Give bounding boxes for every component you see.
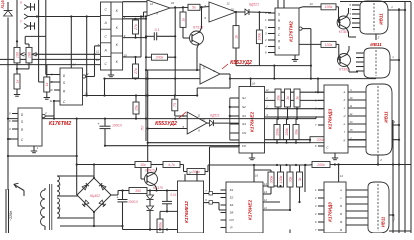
- transistor Q1 KT315: [190, 31, 204, 45]
- svg-text:К176ИД3: К176ИД3: [328, 202, 333, 222]
- wire secondary top to bridge: [62, 176, 94, 179]
- svg-text:200к: 200к: [316, 138, 325, 142]
- wire R11 to Q2: [336, 7, 341, 23]
- svg-text:КТ361: КТ361: [339, 67, 349, 71]
- wire DD4a C pin: [53, 100, 55, 120]
- ground DD1: [108, 70, 114, 77]
- DD3 output wires to DD5: [265, 88, 325, 93]
- svg-text:1к: 1к: [15, 79, 19, 83]
- wire DD6 to DD7: [213, 194, 227, 211]
- wire VD2 out: [249, 11, 271, 13]
- U3 output wire: [197, 74, 230, 96]
- svg-text:10: 10: [49, 88, 53, 92]
- svg-text:f2: f2: [340, 212, 343, 216]
- Q1 emitter wire: [196, 43, 199, 71]
- resistor R4: [44, 65, 50, 92]
- wire y54 bus to DD1: [37, 53, 102, 55]
- DD3 pin16 top: [251, 79, 256, 87]
- wire vertical x46: [17, 0, 54, 75]
- DD5 output wires to V3: [348, 89, 366, 147]
- svg-text:КД521: КД521: [210, 114, 220, 118]
- svg-text:27к: 27к: [134, 68, 138, 75]
- svg-text:10: 10: [230, 8, 234, 12]
- wire to R24: [180, 165, 187, 172]
- wire bus y164.5 left: [77, 164, 135, 166]
- DD8 left pins: [314, 188, 324, 232]
- svg-text:2: 2: [264, 38, 267, 42]
- transformer T1 primary: [41, 188, 46, 230]
- wire bus y164.5 right: [330, 163, 411, 165]
- diode bridge VD4 KTs402: [77, 178, 111, 212]
- svg-text:1к: 1к: [181, 18, 185, 22]
- svg-text:15к: 15к: [134, 105, 138, 111]
- wire bus y78.6 right: [229, 78, 376, 94]
- svg-text:2к: 2к: [234, 35, 238, 40]
- wire y64 to DD1: [0, 64, 101, 66]
- IC DD8 K176ID3: [324, 182, 346, 233]
- svg-text:ИВ11: ИВ11: [370, 42, 382, 47]
- svg-text:100к: 100к: [258, 33, 262, 41]
- DD6 right pins: [204, 189, 213, 204]
- svg-text:30к: 30к: [288, 176, 292, 182]
- svg-text:КЦ402: КЦ402: [90, 194, 100, 198]
- wire secondary center tap: [62, 195, 78, 196]
- svg-text:1000,0: 1000,0: [112, 124, 122, 128]
- svg-text:КД521: КД521: [249, 3, 259, 7]
- resistor R11 100k: [321, 4, 336, 10]
- tube V1 bottom pin 2: [376, 34, 380, 40]
- DD3 left pins: [229, 98, 239, 140]
- label K553UD2 upper: [222, 60, 252, 69]
- svg-text:~4в: ~4в: [58, 207, 62, 212]
- capacitor C3 0.01: [162, 191, 177, 212]
- svg-text:100: 100: [27, 52, 31, 58]
- svg-text:100к: 100к: [279, 175, 283, 183]
- label KT361 Q2: [339, 30, 349, 34]
- VFD tube V2: [356, 48, 390, 78]
- svg-text:CP: CP: [242, 144, 246, 148]
- wire bottom right rail: [389, 230, 411, 232]
- svg-text:100к: 100к: [285, 128, 289, 136]
- svg-text:100к: 100к: [325, 5, 333, 9]
- wire bottom bus: [60, 212, 179, 231]
- wire VD3 to DD3: [214, 122, 240, 124]
- wire left vertical bus: [7, 2, 9, 190]
- label KT315: [193, 26, 203, 30]
- svg-text:1к: 1к: [45, 82, 49, 86]
- resistor row3 R28: [287, 165, 293, 211]
- ground DD3: [249, 153, 255, 160]
- IC DD5 K176ID3: [324, 85, 348, 153]
- wire DD2 top pin 13: [299, 2, 321, 8]
- DD4b input pins: [9, 112, 18, 142]
- IC DD4a K176TM2: [60, 68, 83, 105]
- wire bus right x405: [404, 2, 406, 233]
- svg-text:0,01: 0,01: [170, 193, 176, 197]
- IC DD3 K176IE2: [239, 87, 265, 154]
- transistor Q4 KT815: [145, 169, 158, 186]
- resistor R20 200k: [265, 137, 400, 143]
- tube V3 bottom pin 2: [377, 155, 382, 166]
- wire y190.5 to DD6: [167, 190, 178, 192]
- svg-text:КС170: КС170: [153, 186, 163, 190]
- DD4a input pins: [49, 73, 60, 104]
- DD8 top pin: [338, 163, 344, 182]
- IC DD1 right column K: [111, 2, 123, 70]
- svg-text:К553УД2: К553УД2: [230, 60, 252, 66]
- resistor R25 300k: [157, 219, 163, 233]
- VFD tube V3 IV11: [366, 84, 392, 155]
- label KS170: [153, 186, 163, 190]
- wire x147.7 vertical: [147, 70, 149, 174]
- ground below R3: [14, 89, 20, 96]
- DD2 input pins: [264, 11, 275, 55]
- svg-text:К176ТМ2: К176ТМ2: [289, 21, 295, 42]
- DD1 pin 11: [96, 49, 99, 53]
- label PU: [141, 125, 145, 130]
- svg-text:~4в: ~4в: [58, 183, 62, 188]
- svg-text:30к: 30к: [276, 95, 280, 101]
- U3 input wires: [145, 69, 200, 71]
- resistor R6 5k: [188, 4, 200, 10]
- svg-text:5к: 5к: [192, 6, 196, 10]
- wire vertical x38: [39, 0, 54, 82]
- DD1 pin 10: [123, 53, 141, 57]
- wire cap3 to DD6: [160, 210, 178, 219]
- resistor R24 200k: [187, 164, 312, 175]
- wire U1 output: [170, 6, 188, 8]
- svg-text:100к: 100к: [325, 43, 333, 47]
- svg-text:К176ИЕ2: К176ИЕ2: [248, 200, 254, 221]
- svg-text:S4: S4: [242, 122, 246, 126]
- resistor R8 200k: [145, 54, 176, 60]
- op-amp U3: [200, 64, 220, 84]
- svg-text:200к: 200к: [316, 163, 325, 167]
- trimmer resistor R2 100: [26, 47, 38, 63]
- resistor R7: [180, 7, 186, 27]
- transformer T1 core: [50, 184, 52, 230]
- svg-text:16: 16: [252, 82, 256, 86]
- resistor R12 100k: [299, 41, 336, 47]
- wire R7 to Q1 base: [183, 27, 190, 38]
- op-amp U1: [142, 0, 174, 18]
- wire x86 vertical: [86, 17, 88, 97]
- Q3 emitter: [347, 46, 350, 55]
- resistor R13 75: [172, 96, 187, 117]
- DD4a pin14 top: [71, 17, 76, 68]
- diode VD3 KD521: [207, 114, 220, 127]
- VFD tube V1 IV11: [350, 1, 388, 34]
- IC DD1 left column: [101, 2, 112, 70]
- resistor R21 360: [129, 188, 147, 194]
- resistor R10 100k: [256, 12, 262, 65]
- Q1 collector wire: [199, 6, 203, 33]
- transformer T1 secondary 2: [57, 198, 62, 218]
- svg-text:3к: 3к: [298, 177, 302, 181]
- ground DD2: [292, 55, 298, 61]
- svg-text:~1,2в: ~1,2в: [392, 214, 396, 222]
- DD7 pin16 top: [253, 164, 259, 182]
- svg-text:200к: 200к: [155, 56, 164, 60]
- wire y156: [7, 155, 78, 157]
- svg-text:К176ИЕ2: К176ИЕ2: [250, 112, 256, 133]
- trimmer resistor R1 100: [14, 40, 29, 63]
- wire bus y118.6: [7, 117, 318, 120]
- wire x146 vertical: [145, 15, 147, 141]
- zener VD5 KS170: [146, 195, 153, 231]
- svg-text:3к: 3к: [295, 96, 299, 100]
- svg-text:2: 2: [379, 158, 382, 162]
- svg-text:300к: 300к: [269, 175, 273, 183]
- label KT361 Q3: [339, 67, 349, 71]
- resistor R9 feedback: [233, 11, 239, 66]
- DD6 top pins: [185, 171, 197, 182]
- resistor row3 R29: [297, 165, 303, 203]
- DD3 CP clock wire: [208, 147, 239, 195]
- resistor row2 R18: [284, 119, 290, 144]
- svg-text:S3: S3: [242, 114, 246, 118]
- resistor R5 27k: [133, 18, 139, 38]
- DD1 pin 9: [123, 34, 147, 39]
- wire top rail: [123, 1, 147, 3]
- svg-text:11: 11: [96, 49, 99, 53]
- svg-text:360: 360: [135, 189, 141, 193]
- IC DD6 K176IE12: [178, 181, 204, 233]
- DD7 output wires: [263, 182, 280, 186]
- resistor R15 3k: [285, 89, 291, 119]
- label P: [20, 1, 23, 5]
- wire y59 to DD1: [0, 58, 101, 60]
- IC DD7 K176IE2 bottom: [226, 182, 263, 233]
- svg-text:КТ815: КТ815: [145, 169, 155, 173]
- resistor R32 27k: [133, 56, 139, 79]
- wire bus right x399: [398, 8, 400, 233]
- svg-text:ИВ11: ИВ11: [379, 13, 384, 25]
- svg-text:К176ТМ2: К176ТМ2: [49, 121, 71, 127]
- label 220v: [9, 211, 13, 221]
- svg-text:S8: S8: [230, 211, 234, 215]
- wire bus y95.5: [105, 94, 198, 96]
- wire bus right x411: [410, 2, 412, 233]
- DD4a output 12: [82, 46, 100, 78]
- resistor R3: [14, 74, 20, 89]
- wire bus y78.6 left: [105, 78, 201, 80]
- svg-text:~220в: ~220в: [9, 211, 13, 221]
- label KTs402: [90, 194, 100, 198]
- svg-text:27к: 27к: [134, 24, 138, 31]
- VFD tube V4 IV11: [368, 182, 389, 233]
- svg-text:12: 12: [96, 58, 100, 62]
- Q3 collector: [347, 65, 359, 72]
- wire y190.5 to cap3: [150, 189, 168, 191]
- svg-text:S1: S1: [242, 96, 246, 100]
- wire bottom connections: [290, 164, 306, 233]
- touch contact E3: [24, 22, 35, 30]
- svg-text:S4: S4: [230, 203, 234, 207]
- capacitor C4 1000uF: [97, 119, 122, 146]
- svg-text:200к: 200к: [191, 170, 200, 174]
- touch contact E1: [24, 3, 35, 11]
- svg-text:1000,0: 1000,0: [128, 200, 138, 204]
- svg-text:100: 100: [15, 52, 19, 58]
- wire to bus: [236, 65, 312, 79]
- resistor R14 30k: [275, 89, 281, 119]
- svg-text:КЦ405: КЦ405: [0, 0, 5, 9]
- ground below R4: [44, 92, 50, 99]
- capacitor C2 1000uF: [116, 191, 138, 230]
- resistor row2 R19: [293, 119, 299, 144]
- resistor row3 R26: [268, 170, 274, 194]
- wire x310 vertical: [310, 29, 312, 79]
- transistor Q2 KT361: [337, 16, 350, 29]
- svg-text:A: A: [104, 48, 107, 52]
- resistor row2 R17: [274, 119, 280, 144]
- svg-text:11: 11: [198, 114, 201, 118]
- resistor R31 200k bus: [312, 162, 330, 168]
- wire bridge left up: [76, 118, 78, 196]
- wire secondary bottom to bridge: [62, 212, 94, 219]
- svg-text:2: 2: [377, 36, 380, 40]
- diode bridge label KTs405: [0, 0, 5, 9]
- svg-text:КТ361: КТ361: [339, 30, 349, 34]
- svg-text:11: 11: [50, 99, 53, 103]
- wire row3 top: [254, 169, 271, 171]
- svg-text:К176ИЕ12: К176ИЕ12: [184, 201, 189, 223]
- wire R6 to U2: [200, 6, 209, 8]
- wire R21 to zener: [147, 189, 151, 195]
- label K176TM2: [49, 121, 71, 127]
- svg-text:13: 13: [84, 92, 88, 96]
- DD8 output wires to V4: [346, 190, 368, 225]
- svg-text:ИВ11: ИВ11: [384, 111, 389, 123]
- diode VD2 KD521: [236, 3, 259, 16]
- tube V4 right pin wire: [389, 214, 394, 216]
- svg-text:S2: S2: [242, 105, 246, 109]
- DD2 top stubs: [278, 0, 284, 8]
- wire rail y190.5: [111, 189, 129, 195]
- DD5 left pins: [314, 90, 324, 148]
- resistor R30 15k: [133, 94, 139, 119]
- svg-text:12: 12: [226, 2, 230, 6]
- mains plug arrows: [6, 183, 24, 233]
- wire bridge bottom output: [93, 211, 95, 213]
- wire node to op-amp input: [36, 15, 144, 17]
- resistor row3 R27: [278, 165, 284, 187]
- svg-text:14: 14: [72, 63, 76, 67]
- svg-text:ИВ11: ИВ11: [381, 216, 386, 227]
- svg-text:12: 12: [202, 66, 206, 70]
- IC DD4b K176TM2: [18, 108, 42, 146]
- transistor Q3 KT361: [338, 54, 351, 67]
- op-amp U2: [204, 2, 236, 23]
- tube V1 right pin wire: [388, 5, 406, 11]
- DD2 output circle: [299, 27, 311, 30]
- diode VD1: [4, 11, 13, 17]
- svg-text:К176ИД3: К176ИД3: [328, 108, 334, 129]
- resistor R22 10k: [135, 162, 151, 168]
- DD1 pin 12: [96, 58, 100, 62]
- svg-text:A: A: [104, 21, 107, 25]
- wire under R1 R2: [16, 63, 29, 74]
- Q4 base emitter collector: [141, 168, 158, 192]
- wire bus right x393: [392, 120, 394, 233]
- DD4a output 13: [83, 78, 106, 97]
- DD1 pin 6: [98, 43, 100, 47]
- transformer T1 secondary 1: [57, 176, 62, 196]
- label heater voltage: [392, 214, 396, 222]
- U4 plus input wire: [147, 127, 188, 129]
- svg-text:0,1: 0,1: [155, 28, 160, 32]
- Q2 emitter: [346, 8, 349, 17]
- svg-text:12: 12: [85, 72, 89, 76]
- svg-text:30к: 30к: [294, 129, 298, 135]
- resistor R16 3k: [294, 89, 300, 119]
- svg-text:К553УД2: К553УД2: [155, 121, 177, 127]
- svg-text:S2: S2: [230, 196, 234, 200]
- tube V3 right pin wire: [392, 120, 400, 126]
- IC DD2 K176TM2: [275, 8, 299, 55]
- touch contact E2: [24, 14, 37, 19]
- Q2 collector to tube: [346, 28, 356, 37]
- svg-text:S1: S1: [230, 188, 234, 192]
- wire top right rail: [340, 1, 411, 3]
- svg-text:300к: 300к: [275, 128, 279, 136]
- label IV11 tube V2: [370, 42, 382, 47]
- wire R12 to Q3: [336, 44, 341, 60]
- svg-text:12: 12: [150, 2, 154, 6]
- svg-text:10к: 10к: [140, 163, 146, 167]
- ground DD5: [332, 153, 338, 160]
- wire bridge top output: [93, 163, 95, 179]
- DD4b output wires: [42, 101, 54, 118]
- svg-text:10: 10: [171, 1, 175, 5]
- wire x141: [140, 15, 142, 57]
- label K553UD2 lower: [155, 112, 186, 127]
- svg-text:3к: 3к: [286, 96, 290, 100]
- svg-text:13: 13: [309, 2, 313, 6]
- label U: [20, 20, 23, 24]
- DD1 pin 3: [123, 15, 147, 20]
- tube V2 right pin wire: [390, 55, 400, 61]
- ground DD4b: [31, 146, 39, 153]
- wire x175 vertical: [174, 6, 176, 96]
- resistor R23 4.7k: [151, 162, 180, 168]
- svg-text:75: 75: [173, 103, 177, 107]
- op-amp U4: [182, 112, 207, 134]
- wire bus y145.7: [104, 145, 240, 147]
- capacitor C1 0.1: [145, 28, 175, 40]
- wire bus y142.7: [148, 142, 310, 144]
- DD7 left pins: [221, 190, 227, 228]
- svg-text:4,7к: 4,7к: [168, 163, 175, 167]
- DD4b C pin wire: [7, 138, 12, 140]
